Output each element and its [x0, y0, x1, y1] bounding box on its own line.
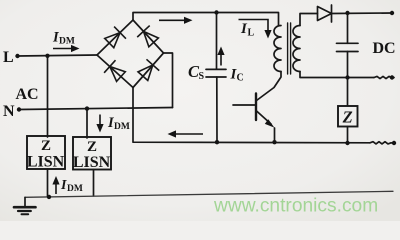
svg-text:L: L — [3, 49, 14, 66]
svg-text:DM: DM — [67, 184, 83, 194]
svg-text:LISN: LISN — [73, 154, 111, 171]
svg-text:www.cntronics.com: www.cntronics.com — [213, 196, 378, 217]
svg-text:I: I — [60, 178, 67, 193]
svg-text:AC: AC — [16, 86, 39, 103]
svg-text:Z: Z — [41, 138, 51, 154]
svg-text:LISN: LISN — [27, 154, 65, 171]
svg-text:DM: DM — [59, 37, 75, 47]
svg-text:DM: DM — [114, 122, 130, 132]
svg-text:Z: Z — [342, 108, 353, 127]
svg-text:L: L — [248, 28, 255, 39]
svg-text:S: S — [199, 71, 205, 82]
svg-text:DC: DC — [373, 40, 396, 57]
svg-text:Z: Z — [87, 139, 97, 155]
svg-text:N: N — [3, 103, 15, 120]
svg-text:C: C — [237, 73, 244, 84]
